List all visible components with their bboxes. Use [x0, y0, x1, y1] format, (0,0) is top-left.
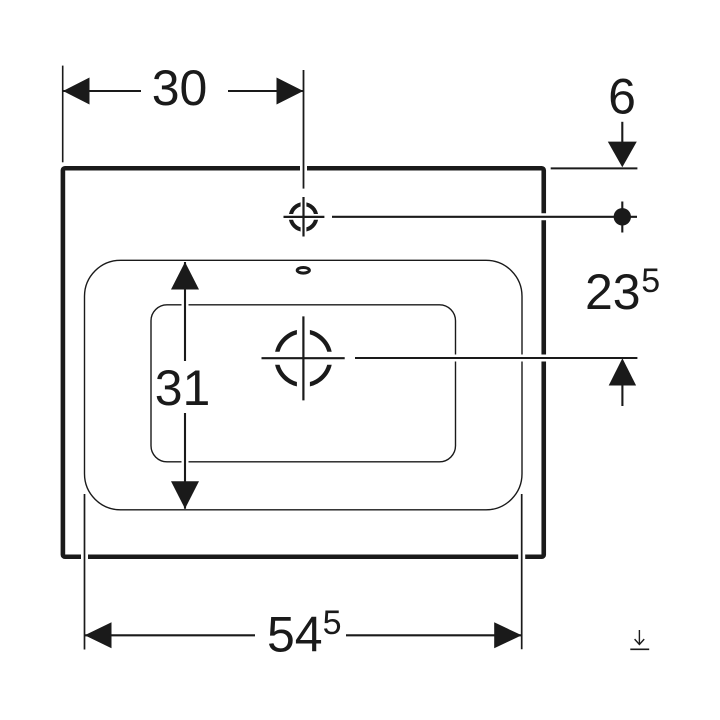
drain crosshair vertical: [302, 316, 304, 400]
svg-text:5: 5: [323, 604, 342, 642]
arrow 23^5 up tail: [621, 385, 623, 406]
dimension line 54^5: [85, 634, 522, 636]
faucet hole circle: [291, 204, 317, 230]
arrowhead 54^5 left: [85, 622, 112, 648]
faucet crosshair vertical: [302, 197, 304, 237]
download icon baseline: [630, 648, 649, 650]
drain hole circle: [277, 331, 331, 385]
download icon arrow shaft: [638, 630, 640, 644]
arrowhead 31 down: [171, 481, 199, 509]
washbasin outer outline (thick rect): [63, 168, 544, 557]
inner basin bottom (rounded rect 2): [151, 305, 456, 462]
halo behind label 31: [154, 361, 214, 413]
faucet hole circle cardinal gaps: [301, 199, 307, 235]
reference point dot: [614, 208, 631, 225]
svg-text:6: 6: [608, 69, 636, 125]
arrowhead 30 left: [63, 78, 90, 105]
download icon arrow chevron: [635, 639, 645, 644]
extension line 54^5 left (casing over bottom edge): [81, 546, 88, 568]
extension line faucet axis (with white casing over top edge): [300, 158, 307, 180]
arrowhead 31 up: [171, 262, 199, 290]
arrowhead 23^5 up: [609, 358, 636, 385]
reference point tick vertical: [621, 202, 623, 233]
arrowhead 30 right: [277, 78, 304, 105]
svg-text:30: 30: [152, 60, 208, 116]
svg-text:5: 5: [641, 262, 660, 300]
reference line top edge right: [551, 167, 638, 169]
faucet axis line to reference point (with white casing over right edge): [530, 213, 558, 220]
halo behind label 30: [141, 62, 228, 110]
arrowhead 54^5 right: [494, 622, 522, 648]
drain axis line (with white casing over crossed edges): [440, 355, 560, 362]
faucet crosshair horizontal: [284, 216, 325, 218]
dimension line 31 vertical (casings over rect2 edges): [182, 295, 189, 315]
extension line 54^5 right (casing over bottom edge): [518, 546, 525, 568]
extension line left of dim 30: [62, 66, 64, 163]
drain hole circle cardinal gaps: [297, 326, 310, 390]
arrowhead 6 down: [608, 142, 637, 168]
arrow 6 down tail: [621, 122, 623, 142]
dimension line 30: [63, 90, 303, 92]
drain crosshair horizontal: [262, 357, 345, 359]
overflow hole: [297, 268, 309, 274]
svg-text:54: 54: [267, 606, 323, 662]
halo behind label 54^5: [255, 606, 346, 656]
svg-text:31: 31: [155, 360, 211, 416]
inner basin rim (rounded rect 1): [85, 260, 523, 510]
svg-text:23: 23: [585, 264, 641, 320]
